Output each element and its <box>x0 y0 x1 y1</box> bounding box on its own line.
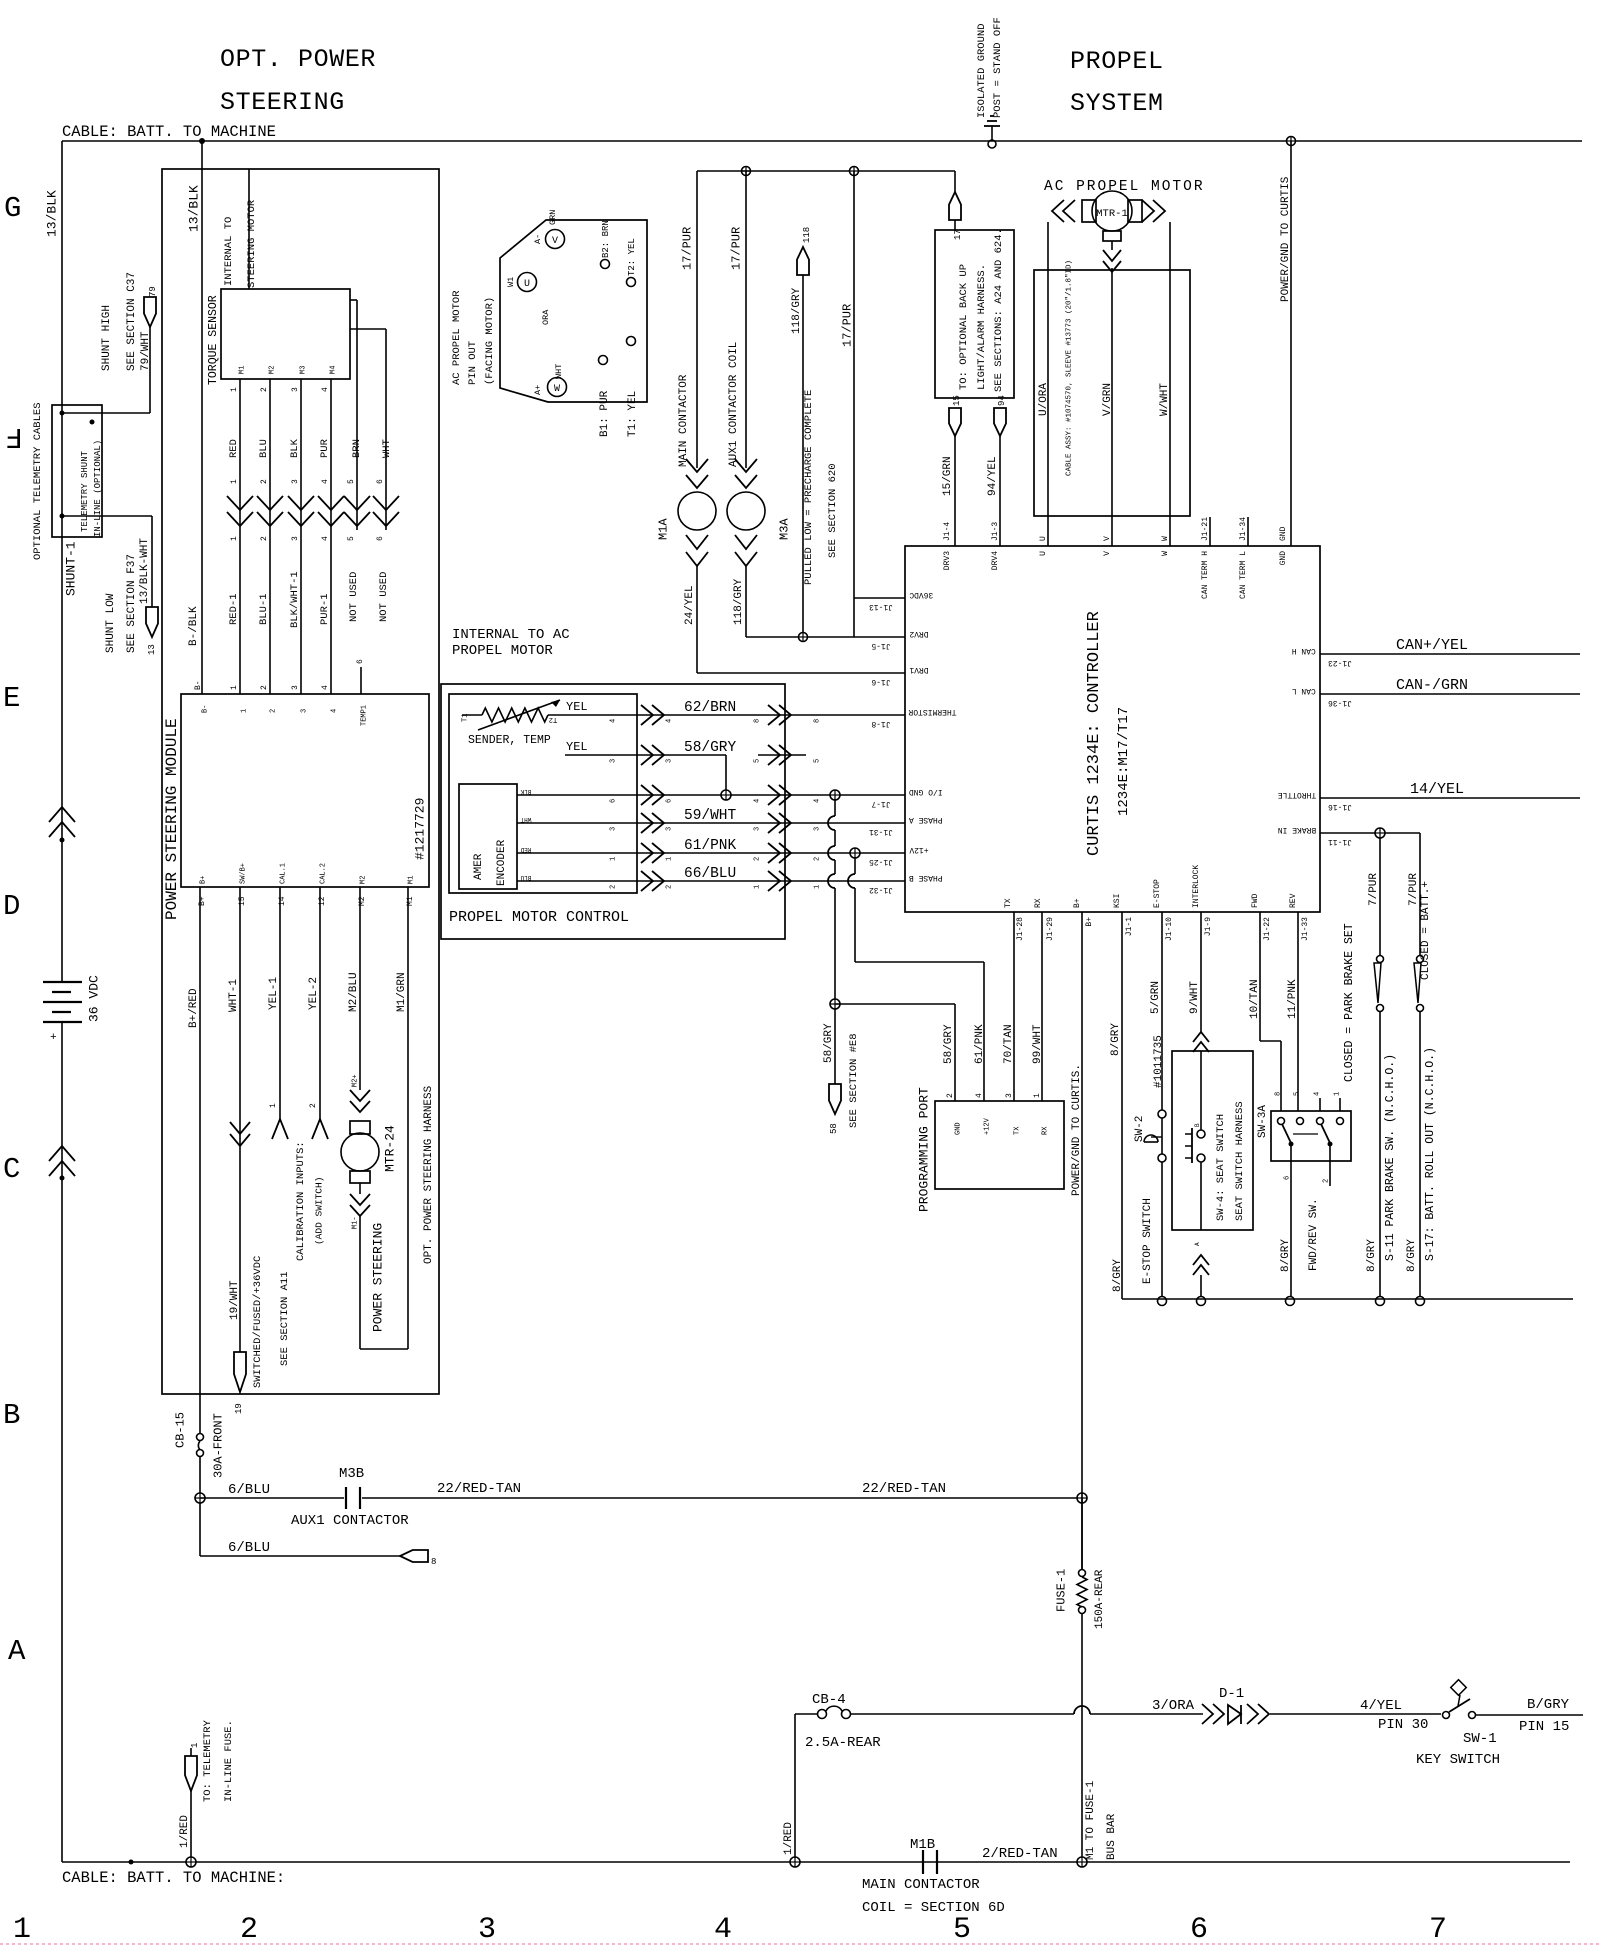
svg-text:5: 5 <box>347 536 356 541</box>
svg-text:1: 1 <box>190 1743 200 1748</box>
svg-text:6: 6 <box>356 659 365 664</box>
svg-text:J1-29: J1-29 <box>1046 917 1055 941</box>
svg-text:SW-1: SW-1 <box>1463 1731 1497 1747</box>
telemetry shunt SHUNT-1 box <box>32 402 103 596</box>
svg-text:M1 TO FUSE-1: M1 TO FUSE-1 <box>1085 1780 1097 1860</box>
svg-text:NOT USED: NOT USED <box>348 572 360 622</box>
svg-text:8/GRY: 8/GRY <box>1110 1023 1122 1056</box>
svg-text:KEY SWITCH: KEY SWITCH <box>1416 1752 1500 1768</box>
svg-text:D-1: D-1 <box>1219 1686 1244 1702</box>
svg-text:4: 4 <box>754 799 762 803</box>
svg-text:MTR-24: MTR-24 <box>383 1125 398 1172</box>
torque sensor box <box>207 169 350 385</box>
wire YEL-2 calibration input 2 <box>308 887 328 1139</box>
opt power steering harness box <box>162 169 439 1394</box>
svg-text:5: 5 <box>1294 1092 1302 1096</box>
svg-text:M1: M1 <box>408 876 416 884</box>
svg-text:U/ORA: U/ORA <box>1038 383 1050 416</box>
wire 70/TAN from TX <box>1003 912 1015 1101</box>
throttle 14/YEL wire <box>1320 781 1580 798</box>
svg-text:TORQUE SENSOR: TORQUE SENSOR <box>207 295 220 385</box>
svg-text:5: 5 <box>347 479 356 484</box>
svg-text:3: 3 <box>666 759 674 763</box>
svg-text:3: 3 <box>666 827 674 831</box>
svg-text:6: 6 <box>1284 1176 1292 1180</box>
svg-text:CAN L: CAN L <box>1292 686 1316 695</box>
svg-text:STEERING: STEERING <box>220 88 345 117</box>
svg-text:M2: M2 <box>269 366 277 374</box>
svg-text:V: V <box>1103 536 1112 541</box>
svg-text:CAL.2: CAL.2 <box>320 863 328 884</box>
fuse FUSE-1 150A <box>1054 1569 1118 1862</box>
svg-text:YEL-1: YEL-1 <box>268 977 280 1010</box>
svg-text:15: 15 <box>952 395 962 406</box>
svg-text:8: 8 <box>1275 1092 1283 1096</box>
svg-text:1: 1 <box>230 536 239 541</box>
internal to AC propel motor label <box>452 627 570 659</box>
calibration inputs labels <box>295 1141 325 1261</box>
svg-text:T1: T1 <box>462 714 470 722</box>
svg-text:7: 7 <box>1429 1913 1447 1947</box>
svg-text:AUX1 CONTACTOR: AUX1 CONTACTOR <box>291 1513 409 1529</box>
top battery bus wire <box>62 123 1582 141</box>
connector 17 to backup alarm box <box>949 171 963 240</box>
svg-text:B: B <box>1194 1123 1201 1127</box>
diode D-1 <box>1202 1686 1441 1733</box>
svg-text:SENDER, TEMP: SENDER, TEMP <box>468 734 551 747</box>
power gnd to curtis wire <box>1280 137 1296 547</box>
svg-text:19: 19 <box>234 1403 244 1414</box>
svg-text:1: 1 <box>610 857 618 861</box>
svg-text:SW-3A: SW-3A <box>1257 1105 1269 1138</box>
svg-text:M3B: M3B <box>339 1466 364 1482</box>
svg-text:3: 3 <box>291 536 300 541</box>
svg-text:DRV4: DRV4 <box>991 551 1000 570</box>
svg-text:6: 6 <box>610 799 618 803</box>
wire 99/WHT from RX <box>1032 912 1044 1101</box>
svg-text:J1-3: J1-3 <box>991 522 1000 541</box>
svg-text:CAN TERM L: CAN TERM L <box>1239 551 1248 599</box>
battery rollout switch S-17 <box>1406 881 1437 1296</box>
svg-text:S-11 PARK BRAKE SW. (N.C.H.O.): S-11 PARK BRAKE SW. (N.C.H.O.) <box>1384 1054 1397 1261</box>
wire 22/RED-TAN to fuse junction <box>1081 1498 1083 1570</box>
propel control wires to controller <box>610 700 905 891</box>
svg-text:POST = STAND OFF: POST = STAND OFF <box>992 17 1004 118</box>
svg-text:MTR-1: MTR-1 <box>1096 208 1128 220</box>
left battery bus wire <box>61 141 63 1862</box>
svg-text:3: 3 <box>610 827 618 831</box>
wire 94/YEL to DRV4 <box>987 395 1007 546</box>
svg-text:J1-10: J1-10 <box>1165 917 1174 941</box>
svg-text:S-17: BATT. ROLL OUT (N.C.H.O.: S-17: BATT. ROLL OUT (N.C.H.O.) <box>1424 1047 1437 1261</box>
svg-text:CABLE: BATT. TO MACHINE: CABLE: BATT. TO MACHINE <box>62 123 276 141</box>
svg-text:10/TAN: 10/TAN <box>1249 979 1261 1019</box>
svg-text:1: 1 <box>269 1103 278 1108</box>
svg-text:5: 5 <box>754 759 762 763</box>
svg-text:30A-FRONT: 30A-FRONT <box>211 1413 225 1478</box>
svg-text:4: 4 <box>321 387 330 392</box>
svg-text:118: 118 <box>802 227 812 243</box>
svg-text:3: 3 <box>814 827 822 831</box>
svg-text:CURTIS 1234E: CONTROLLER: CURTIS 1234E: CONTROLLER <box>1085 611 1104 856</box>
svg-text:2: 2 <box>270 709 278 713</box>
svg-text:DRV3: DRV3 <box>943 551 952 570</box>
svg-text:1: 1 <box>230 479 239 484</box>
svg-text:3: 3 <box>291 387 300 392</box>
svg-text:RED: RED <box>520 846 531 853</box>
svg-text:BLK: BLK <box>520 788 531 795</box>
svg-text:B+/RED: B+/RED <box>188 988 200 1028</box>
CAN+ wire <box>1320 637 1580 654</box>
svg-text:PUR-1: PUR-1 <box>319 593 331 625</box>
power steering module box <box>163 694 429 920</box>
wire 17/PUR to controller 36VDC <box>697 167 955 638</box>
svg-text:9/WHT: 9/WHT <box>1189 981 1201 1014</box>
svg-text:GRN: GRN <box>548 210 558 225</box>
svg-text:U: U <box>1039 551 1048 556</box>
svg-text:PROGRAMMING PORT: PROGRAMMING PORT <box>917 1087 932 1212</box>
svg-text:B-: B- <box>194 680 203 690</box>
seat switch SW-4 harness box <box>1172 1051 1253 1230</box>
svg-text:22/RED-TAN: 22/RED-TAN <box>862 1481 946 1497</box>
svg-text:17/PUR: 17/PUR <box>729 227 743 270</box>
svg-text:2: 2 <box>814 857 822 861</box>
svg-text:61/PNK: 61/PNK <box>684 838 737 854</box>
svg-text:3: 3 <box>610 759 618 763</box>
svg-text:T1: YEL: T1: YEL <box>627 391 639 437</box>
svg-text:J1-25: J1-25 <box>869 857 893 866</box>
svg-text:4: 4 <box>321 536 330 541</box>
svg-text:DRV1: DRV1 <box>909 665 928 674</box>
svg-text:J1-22: J1-22 <box>1263 917 1272 941</box>
svg-text:2: 2 <box>946 1093 955 1098</box>
svg-text:E-STOP SWITCH: E-STOP SWITCH <box>1142 1198 1154 1284</box>
svg-text:CAN TERM H: CAN TERM H <box>1201 551 1210 599</box>
svg-text:7/PUR: 7/PUR <box>1408 873 1420 906</box>
key switch SW-1 <box>1416 1680 1583 1768</box>
wire 13/BLK labels on left bus <box>45 185 202 237</box>
svg-text:M1: M1 <box>239 366 247 374</box>
svg-text:7/PUR: 7/PUR <box>1368 873 1380 906</box>
svg-text:CAN+/YEL: CAN+/YEL <box>1396 637 1468 654</box>
svg-text:B1: PUR: B1: PUR <box>599 390 611 437</box>
svg-text:BLU-1: BLU-1 <box>258 593 270 625</box>
svg-text:+: + <box>50 1032 57 1044</box>
svg-text:4: 4 <box>321 479 330 484</box>
svg-text:SEAT SWITCH HARNESS: SEAT SWITCH HARNESS <box>1234 1101 1246 1221</box>
controller right pins <box>1278 646 1352 846</box>
svg-text:3: 3 <box>1005 1093 1014 1098</box>
svg-text:94/YEL: 94/YEL <box>987 456 999 496</box>
svg-text:YEL: YEL <box>566 740 588 754</box>
svg-text:6: 6 <box>376 479 385 484</box>
svg-text:+12V: +12V <box>909 845 928 854</box>
svg-text:W1: W1 <box>506 277 516 287</box>
svg-text:#1011735: #1011735 <box>1153 1035 1165 1088</box>
svg-text:CLOSED = PARK BRAKE SET: CLOSED = PARK BRAKE SET <box>1343 923 1356 1082</box>
svg-text:PROPEL MOTOR: PROPEL MOTOR <box>452 643 553 659</box>
breaker CB-4 <box>795 1692 1203 1751</box>
svg-text:RED-1: RED-1 <box>228 593 240 625</box>
svg-text:A+: A+ <box>533 385 543 395</box>
svg-text:5: 5 <box>814 759 822 763</box>
svg-text:J1-5: J1-5 <box>871 641 890 650</box>
svg-text:SEE SECTION A11: SEE SECTION A11 <box>279 1271 291 1366</box>
svg-text:SEE SECTION 620: SEE SECTION 620 <box>827 463 839 558</box>
torque sensor BRN WHT not used wires <box>344 300 399 622</box>
svg-text:+12V: +12V <box>984 1117 992 1135</box>
svg-text:SHUNT LOW: SHUNT LOW <box>105 593 117 653</box>
svg-text:THERMISTOR: THERMISTOR <box>908 707 956 716</box>
CAN- wire <box>1320 677 1580 694</box>
svg-text:E: E <box>3 682 20 715</box>
svg-text:KSI: KSI <box>1113 894 1122 908</box>
svg-text:PROPEL MOTOR CONTROL: PROPEL MOTOR CONTROL <box>449 909 629 926</box>
svg-text:13/BLK: 13/BLK <box>45 190 60 237</box>
svg-text:1: 1 <box>666 857 674 861</box>
svg-text:J1-11: J1-11 <box>1328 837 1352 846</box>
svg-text:59/WHT: 59/WHT <box>684 808 737 824</box>
svg-text:J1-16: J1-16 <box>1328 802 1352 811</box>
svg-text:2: 2 <box>666 885 674 889</box>
svg-text:2: 2 <box>754 857 762 861</box>
svg-text:PHASE B: PHASE B <box>909 873 943 882</box>
svg-text:4/YEL: 4/YEL <box>1360 1698 1402 1714</box>
svg-text:8/GRY: 8/GRY <box>1280 1239 1292 1272</box>
svg-text:1: 1 <box>230 387 239 392</box>
svg-text:SYSTEM: SYSTEM <box>1070 89 1164 118</box>
svg-text:A: A <box>8 1635 26 1668</box>
svg-text:#1217729: #1217729 <box>413 798 428 860</box>
pink margin line <box>0 1943 1600 1945</box>
svg-text:6: 6 <box>666 799 674 803</box>
svg-text:J1-1: J1-1 <box>1125 917 1134 936</box>
svg-text:36 VDC: 36 VDC <box>87 975 102 1022</box>
svg-text:YEL: YEL <box>566 700 588 714</box>
inline fuse telemetry terminal 1/RED <box>179 1719 235 1867</box>
svg-text:RX: RX <box>1034 898 1043 908</box>
junction I/O GND drop to programming port <box>828 790 840 999</box>
svg-text:F: F <box>5 420 22 453</box>
motor MTR-24 power steering <box>341 887 398 1349</box>
svg-text:M2/BLU: M2/BLU <box>348 972 360 1012</box>
svg-text:6: 6 <box>376 536 385 541</box>
svg-text:1/RED: 1/RED <box>783 1822 795 1855</box>
svg-text:4: 4 <box>321 685 330 690</box>
svg-text:SWITCHED/FUSED/+36VDC: SWITCHED/FUSED/+36VDC <box>252 1256 264 1388</box>
programming port box <box>917 1087 1064 1212</box>
motor cable assy box <box>1034 222 1190 546</box>
svg-text:(FACING MOTOR): (FACING MOTOR) <box>484 297 496 385</box>
wire 6/BLU lower with terminal 8 <box>200 1540 436 1567</box>
svg-text:W: W <box>1161 551 1170 556</box>
svg-text:36VDC: 36VDC <box>909 590 933 599</box>
svg-text:24/YEL: 24/YEL <box>684 585 696 625</box>
svg-text:I/O GND: I/O GND <box>909 787 943 796</box>
svg-text:8: 8 <box>431 1557 436 1567</box>
wire2 YEL to 58/GRY <box>565 740 637 755</box>
AC propel motor MTR-1 <box>1044 179 1205 546</box>
svg-text:W/WHT: W/WHT <box>1159 383 1171 416</box>
svg-text:IN-LINE (OPTIONAL): IN-LINE (OPTIONAL) <box>93 440 103 537</box>
svg-text:G: G <box>4 192 21 225</box>
svg-text:BRAKE IN: BRAKE IN <box>1278 825 1317 834</box>
wire 6/BLU to aux contactor M3B <box>195 1466 1087 1529</box>
svg-text:PROPEL: PROPEL <box>1070 47 1164 76</box>
svg-text:4: 4 <box>666 719 674 723</box>
optional backup light alarm box <box>935 228 1014 398</box>
junction +12V drop to programming port <box>848 848 984 1101</box>
controller top pins <box>943 517 1288 599</box>
svg-text:J1-36: J1-36 <box>1328 698 1352 707</box>
svg-text:COIL = SECTION 6D: COIL = SECTION 6D <box>862 1900 1005 1916</box>
AC propel motor pinout connector <box>451 210 647 437</box>
svg-text:58/GRY: 58/GRY <box>823 1023 835 1063</box>
svg-text:8: 8 <box>814 719 822 723</box>
svg-text:62/BRN: 62/BRN <box>684 700 736 716</box>
svg-text:2: 2 <box>260 479 269 484</box>
svg-text:15/GRN: 15/GRN <box>942 456 954 496</box>
e-stop switch SW-2 <box>1134 912 1167 1306</box>
svg-text:BLU: BLU <box>258 439 270 458</box>
svg-text:SEE SECTION C37: SEE SECTION C37 <box>126 272 138 371</box>
svg-text:W: W <box>1161 536 1170 541</box>
svg-text:DRV2: DRV2 <box>909 629 928 638</box>
Curtis 1234E controller U1 <box>905 546 1320 912</box>
svg-text:MAIN CONTACTOR: MAIN CONTACTOR <box>862 1877 980 1893</box>
wire WHT-1 19/WHT switched feed <box>228 887 291 1414</box>
wire B+/RED with breaker CB-15 <box>173 887 225 1556</box>
park brake switch S-11 <box>1343 923 1397 1296</box>
svg-text:BRN: BRN <box>351 439 363 458</box>
svg-text:1: 1 <box>13 1913 31 1947</box>
svg-text:17/PUR: 17/PUR <box>680 227 694 270</box>
svg-text:FWD/REV SW.: FWD/REV SW. <box>1308 1198 1320 1271</box>
svg-text:OPT. POWER: OPT. POWER <box>220 45 376 74</box>
svg-text:3: 3 <box>301 709 309 713</box>
titles <box>220 45 1164 118</box>
svg-text:ORA: ORA <box>541 309 551 325</box>
svg-text:CABLE ASSY: #1074570, SLEEVE #: CABLE ASSY: #1074570, SLEEVE #13773 (20"… <box>1066 260 1074 476</box>
svg-text:J1-7: J1-7 <box>871 799 890 808</box>
wire M1/GRN power steering return <box>360 887 408 1349</box>
wire 58/GRY tap junction <box>721 755 731 800</box>
svg-text:V: V <box>1103 551 1112 556</box>
svg-text:T2: YEL: T2: YEL <box>627 238 637 276</box>
svg-text:M1A: M1A <box>656 518 670 540</box>
svg-text:14/YEL: 14/YEL <box>1410 781 1464 798</box>
svg-text:J1-6: J1-6 <box>871 677 890 686</box>
svg-text:1: 1 <box>1033 1093 1042 1098</box>
svg-text:5: 5 <box>953 1913 971 1947</box>
propel motor control outer box <box>441 684 785 939</box>
svg-text:ISOLATED GROUND: ISOLATED GROUND <box>976 23 988 118</box>
svg-text:A-: A- <box>533 234 543 244</box>
svg-text:BLK/WHT-1: BLK/WHT-1 <box>289 571 301 628</box>
svg-text:TX: TX <box>1014 1126 1022 1135</box>
svg-text:LIGHT/ALARM HARNESS.: LIGHT/ALARM HARNESS. <box>976 264 988 390</box>
svg-text:POWER STEERING MODULE: POWER STEERING MODULE <box>163 718 181 920</box>
svg-text:INTERNAL TO AC: INTERNAL TO AC <box>452 627 570 643</box>
svg-text:3: 3 <box>291 685 300 690</box>
svg-text:4: 4 <box>814 799 822 803</box>
svg-text:SW-4: SEAT SWITCH: SW-4: SEAT SWITCH <box>1215 1114 1227 1221</box>
svg-text:4: 4 <box>714 1913 732 1947</box>
brake in wire 7/PUR <box>1320 828 1420 955</box>
svg-text:PHASE A: PHASE A <box>909 815 943 824</box>
svg-text:SW-2: SW-2 <box>1134 1116 1146 1142</box>
svg-text:J1-13: J1-13 <box>869 602 893 611</box>
svg-text:J1-8: J1-8 <box>871 719 890 728</box>
svg-text:2.5A-REAR: 2.5A-REAR <box>805 1735 881 1751</box>
torque sensor wires to module <box>227 379 385 694</box>
svg-text:M2: M2 <box>360 876 368 884</box>
svg-text:SW/B+: SW/B+ <box>240 863 248 884</box>
wire YEL-1 calibration input 1 <box>268 887 288 1139</box>
svg-text:6/BLU: 6/BLU <box>228 1482 270 1498</box>
svg-text:PULLED LOW = PRECHARGE COMPLET: PULLED LOW = PRECHARGE COMPLETE <box>803 390 815 585</box>
svg-text:3: 3 <box>754 827 762 831</box>
svg-text:IN-LINE FUSE.: IN-LINE FUSE. <box>223 1720 235 1802</box>
svg-text:CAL.1: CAL.1 <box>280 863 288 884</box>
svg-text:B+: B+ <box>1073 898 1082 908</box>
svg-text:2: 2 <box>260 536 269 541</box>
svg-text:TO: TELEMETRY: TO: TELEMETRY <box>202 1719 214 1802</box>
svg-text:2: 2 <box>1323 1179 1331 1183</box>
svg-text:58/GRY: 58/GRY <box>943 1024 955 1064</box>
svg-text:J1-9: J1-9 <box>1204 917 1213 936</box>
svg-text:TO: OPTIONAL BACK UP: TO: OPTIONAL BACK UP <box>958 264 970 390</box>
svg-text:POWER/GND TO CURTIS: POWER/GND TO CURTIS <box>1280 176 1292 302</box>
svg-text:2: 2 <box>260 685 269 690</box>
svg-text:150A-REAR: 150A-REAR <box>1094 1569 1106 1629</box>
svg-text:1234E:M17/T17: 1234E:M17/T17 <box>1116 707 1132 816</box>
battery 36 VDC <box>43 975 102 1044</box>
svg-text:CAN H: CAN H <box>1292 646 1316 655</box>
svg-text:M3A: M3A <box>777 518 791 540</box>
svg-text:(ADD SWITCH): (ADD SWITCH) <box>313 1177 324 1245</box>
svg-text:4: 4 <box>331 709 339 713</box>
svg-text:B: B <box>3 1399 20 1432</box>
amer encoder box <box>459 784 637 889</box>
svg-text:TX: TX <box>1004 898 1013 908</box>
svg-text:J1-33: J1-33 <box>1301 917 1310 941</box>
wire shunt high 79/WHT <box>62 272 158 413</box>
svg-text:8/GRY: 8/GRY <box>1366 1239 1378 1272</box>
svg-text:M1/GRN: M1/GRN <box>396 972 408 1012</box>
bottom battery cable wire <box>62 1860 1570 1888</box>
svg-text:M1-: M1- <box>352 1216 360 1229</box>
svg-text:1: 1 <box>754 885 762 889</box>
svg-text:B/GRY: B/GRY <box>1527 1697 1570 1713</box>
svg-text:61/PNK: 61/PNK <box>974 1024 986 1064</box>
svg-text:SEE SECTION #E8: SEE SECTION #E8 <box>848 1033 860 1128</box>
fwd rev switch SW-3A <box>1249 912 1351 1161</box>
svg-text:118/GRY: 118/GRY <box>733 578 745 625</box>
svg-text:PUR: PUR <box>319 438 331 458</box>
svg-text:2/RED-TAN: 2/RED-TAN <box>982 1846 1058 1862</box>
svg-text:YEL-2: YEL-2 <box>308 977 320 1010</box>
svg-text:B-: B- <box>202 705 210 713</box>
svg-text:CB-15: CB-15 <box>173 1412 187 1448</box>
svg-text:J1-21: J1-21 <box>1201 517 1210 541</box>
wire B+ power gnd to curtis <box>1071 912 1083 1570</box>
fwd rev switch arms <box>1280 1124 1333 1306</box>
svg-text:OPT. POWER STEERING HARNESS: OPT. POWER STEERING HARNESS <box>423 1085 435 1264</box>
svg-text:11/PNK: 11/PNK <box>1287 979 1299 1019</box>
svg-text:OPTIONAL TELEMETRY CABLES: OPTIONAL TELEMETRY CABLES <box>32 402 44 560</box>
svg-text:STEERING MOTOR: STEERING MOTOR <box>246 199 258 288</box>
